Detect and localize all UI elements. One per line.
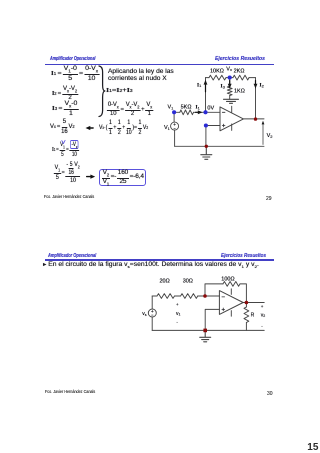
wire output slide2 (243, 302, 264, 304)
svg-text:20Ω: 20Ω (160, 279, 170, 285)
resistor 30 (181, 294, 198, 299)
node Vx dot (228, 76, 232, 80)
resistor 5K (180, 110, 194, 115)
blue tick (62, 140, 65, 143)
source vs (148, 309, 156, 317)
wire bottom rail slide1 (175, 145, 264, 147)
svg-text:2KΩ: 2KΩ (234, 68, 245, 74)
op-amp U1 (220, 107, 243, 131)
svg-text:100Ω: 100Ω (221, 276, 234, 282)
ground G1 (224, 99, 239, 103)
SLIDE 1 footer (44, 194, 94, 199)
left arrow eq row4 (89, 127, 93, 129)
svg-text:v1: v1 (176, 311, 181, 317)
resistor 20 (157, 294, 175, 299)
source vs signs (151, 310, 153, 315)
R stubs (245, 303, 247, 331)
svg-text:V1: V1 (164, 125, 171, 131)
arrowhead V2 slide1 (262, 121, 265, 125)
SLIDE 2 footer (45, 389, 95, 394)
node rail2 dot (red) (203, 329, 207, 333)
svg-text:30Ω: 30Ω (183, 279, 193, 285)
wire output slide1 (243, 118, 264, 120)
svg-text:-: - (176, 319, 178, 324)
wire plus input slide2 (205, 309, 219, 330)
wire 1K stubs (229, 80, 231, 100)
brace slide1 (99, 66, 105, 117)
svg-text:vs: vs (142, 311, 147, 317)
result box (99, 169, 147, 186)
node 30-opamp dot (red) (203, 294, 207, 298)
resistor R (244, 307, 249, 323)
source V1 signs (174, 123, 176, 128)
SLIDE 2 header (48, 253, 96, 259)
node 0V dot (203, 110, 207, 114)
svg-text:+: + (176, 302, 179, 307)
resistor 10K (209, 75, 226, 80)
resistor 1K (227, 86, 232, 95)
right arrow eq row6 (87, 176, 91, 178)
wire left vertical slide1 (205, 78, 207, 113)
V2 measure arrow slide1 (262, 123, 264, 145)
svg-text:I3: I3 (221, 84, 226, 90)
current arrow I3 (down) (229, 81, 231, 85)
svg-text:R: R (251, 312, 255, 318)
current arrow I2 (down) (255, 81, 257, 85)
svg-text:10KΩ: 10KΩ (210, 68, 224, 74)
node plus-input dot (204, 123, 208, 127)
SLIDE 1 header (50, 56, 95, 62)
wire top feedback slide1 (206, 77, 256, 79)
svg-text:I2: I2 (260, 83, 265, 89)
node rail dot (red) (205, 145, 208, 148)
wire right vertical slide1 (255, 78, 257, 120)
wire source bottom slide1 (174, 130, 176, 146)
svg-text:0V: 0V (207, 106, 214, 112)
wire plus input slide1 (206, 126, 220, 147)
page number (307, 442, 318, 453)
op-amp U2 (219, 291, 243, 315)
svg-text:v2: v2 (261, 312, 266, 318)
svg-text:5KΩ: 5KΩ (181, 105, 192, 111)
svg-text:+: + (261, 304, 264, 309)
svg-text:I1: I1 (196, 105, 201, 111)
feedback wire slide2 (205, 284, 246, 303)
op-amp U1 input signs (151, 112, 225, 315)
svg-text:Vx: Vx (226, 66, 232, 72)
ground G3 (200, 330, 211, 341)
source V1 (171, 122, 179, 130)
SLIDE 1 equations (51, 66, 100, 82)
ground G2 (201, 146, 212, 159)
node output2 dot (red) (245, 301, 249, 305)
svg-text:V2: V2 (267, 133, 274, 139)
resistor 100 (223, 282, 240, 287)
current arrow I1 on 5K wire (right) (196, 111, 199, 113)
wire input slide1 (174, 111, 220, 113)
svg-text:1KΩ: 1KΩ (234, 88, 245, 94)
wire source slide2 (151, 296, 153, 330)
node output dot (red) (254, 117, 257, 120)
wire main slide2 (152, 295, 219, 297)
wire bottom rail slide2 (152, 329, 264, 331)
op-amp U2 input signs (222, 296, 225, 298)
svg-text:V1: V1 (168, 105, 175, 111)
svg-text:I1: I1 (197, 82, 202, 88)
current arrow I1 left (up) (205, 84, 207, 92)
svg-text:-: - (261, 323, 263, 328)
node V1 dot (172, 110, 176, 114)
resistor 2K (233, 75, 249, 80)
wire source top slide1 (173, 112, 175, 122)
